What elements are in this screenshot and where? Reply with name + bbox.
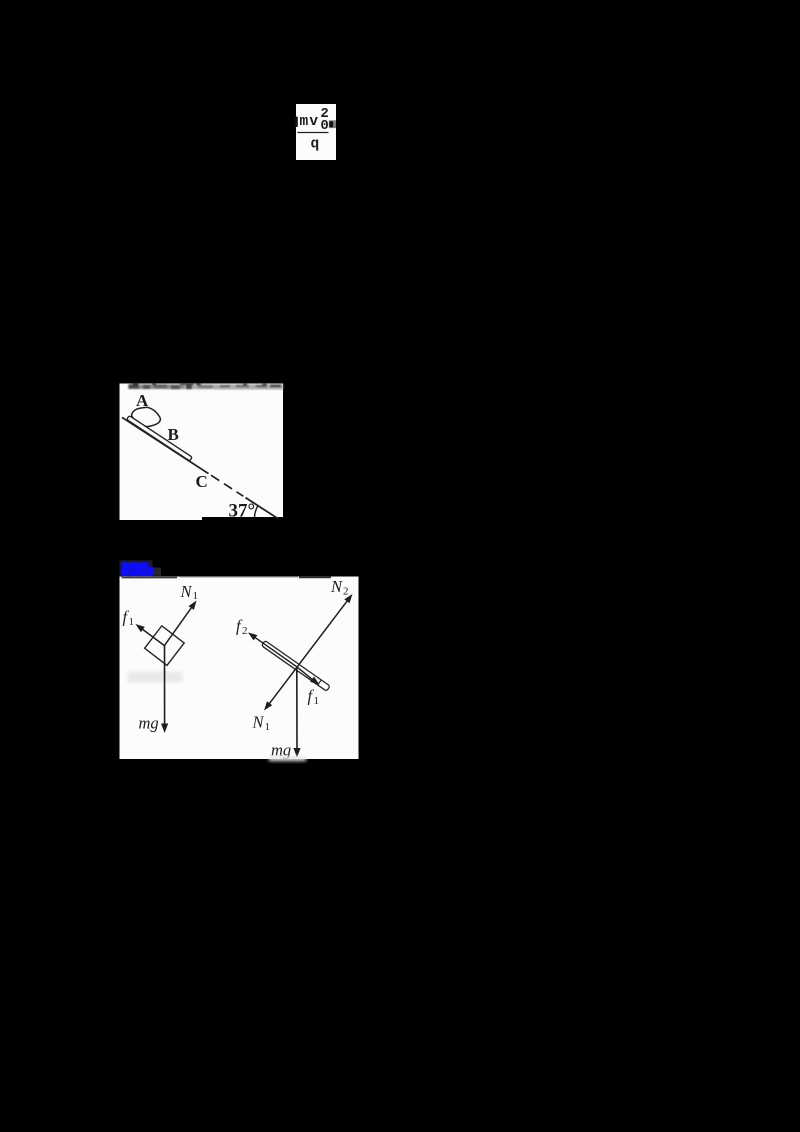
FBD top edge artifact line left	[122, 577, 178, 579]
svg-text:0: 0	[320, 118, 328, 134]
incline diagram panel background	[120, 384, 284, 521]
svg-text:N: N	[330, 577, 343, 596]
svg-text:N: N	[252, 713, 265, 732]
incline dashed segment 2	[224, 484, 232, 489]
svg-text:C: C	[196, 472, 208, 491]
angle arc	[254, 505, 258, 518]
arrow mg (left FBD)	[161, 646, 168, 733]
svg-text:1: 1	[314, 695, 320, 707]
left FBD light smudge	[128, 672, 183, 683]
blue caption dark backdrop	[120, 560, 153, 576]
square block (tilted)	[145, 626, 185, 666]
smudge below mg (right FBD)	[269, 757, 306, 762]
svg-text:N: N	[180, 582, 193, 601]
incline panel bottom-right black band	[202, 517, 283, 522]
arrow N1 (left FBD)	[164, 601, 196, 646]
FBD top edge artifact line middle	[180, 576, 298, 578]
formula panel background	[296, 104, 336, 160]
svg-text:1: 1	[265, 721, 271, 733]
svg-text:mg: mg	[139, 714, 159, 733]
svg-text:B: B	[168, 425, 179, 444]
formula left-edge black tick	[295, 117, 298, 128]
svg-text:2: 2	[242, 625, 248, 637]
FBD panel background	[120, 577, 359, 760]
blue caption dark notches	[128, 561, 146, 573]
arrow f1 (right FBD)	[297, 667, 320, 685]
svg-text:37°: 37°	[229, 501, 256, 522]
svg-text:mv: mv	[300, 114, 320, 130]
scan artifact strip (garbled text)	[128, 383, 283, 390]
FBD top edge artifact line right	[299, 576, 331, 578]
normal line N2/N1 (right FBD)	[264, 594, 353, 711]
fraction bar	[298, 132, 329, 134]
incline surface line (solid upper part)	[122, 417, 209, 473]
blue caption blob	[121, 562, 154, 578]
incline solid lower part	[246, 498, 279, 519]
incline dashed segment 3	[237, 492, 244, 496]
svg-text:q: q	[311, 137, 320, 153]
svg-text:1: 1	[193, 590, 199, 602]
incline dashed segment 1	[211, 475, 219, 480]
arrow f2 (right FBD)	[248, 633, 297, 667]
svg-text:2: 2	[343, 586, 349, 598]
arrow f1 (left FBD)	[136, 624, 165, 646]
rod (right FBD)	[261, 640, 330, 691]
rod B on incline	[127, 416, 193, 461]
svg-text:1: 1	[129, 616, 135, 628]
block A blob	[132, 407, 161, 426]
formula right gray artifact	[329, 120, 336, 128]
arrow mg (right FBD)	[293, 667, 300, 758]
